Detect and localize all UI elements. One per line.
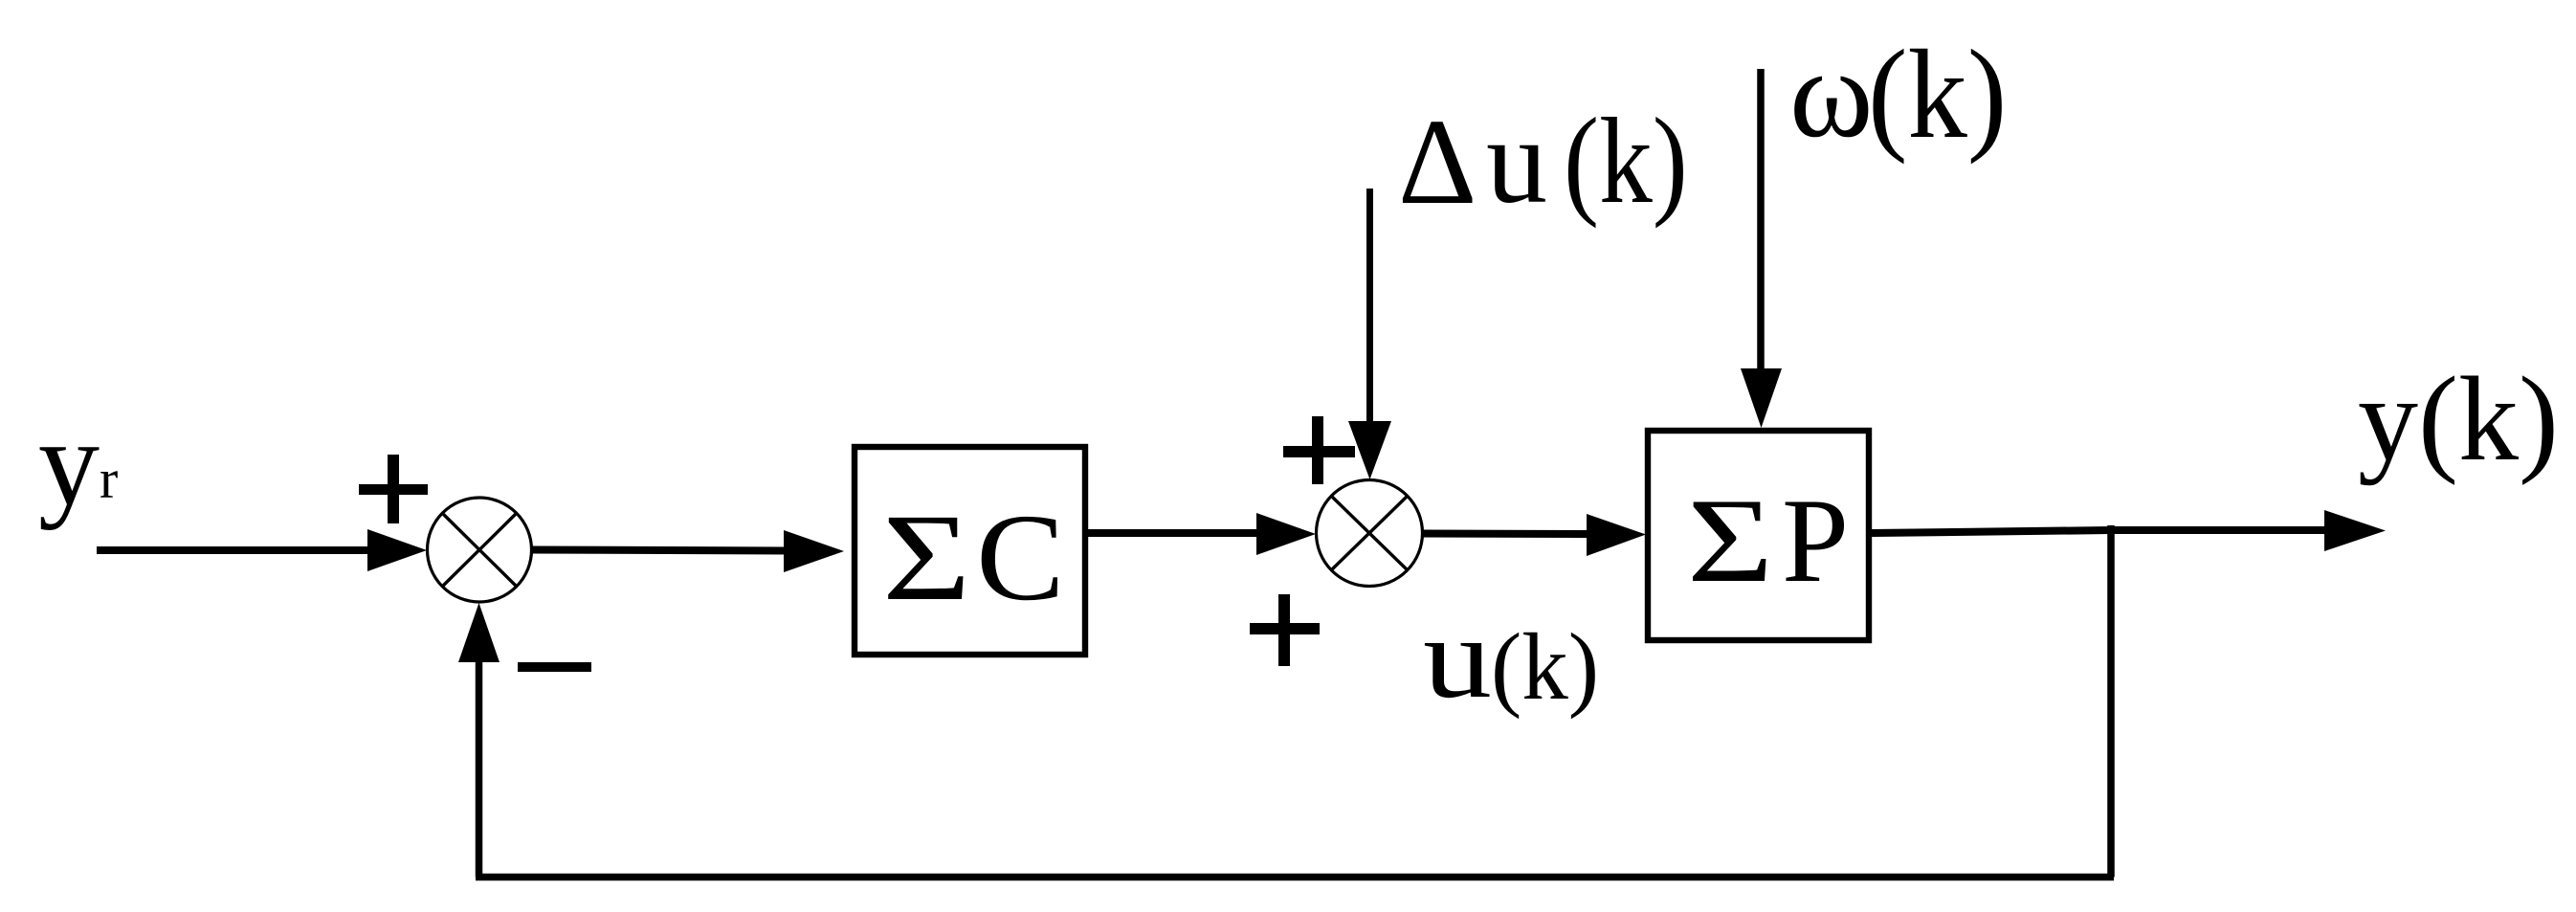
wire delta-u(k) down into S2 — [1366, 189, 1373, 431]
plus sign at S2 bottom-left — [1250, 594, 1320, 666]
summing junction S2 — [1317, 480, 1423, 587]
wire feedback bottom — [476, 874, 2114, 881]
svg-text:u: u — [1423, 592, 1492, 722]
block SigmaC (controller) — [855, 447, 1085, 655]
block SigmaP (plant) — [1648, 431, 1869, 640]
minus sign at S1 feedback input — [518, 662, 591, 672]
arrowhead output y(k) — [2324, 510, 2386, 551]
arrowhead into S1 — [367, 529, 427, 571]
svg-text:u: u — [1486, 93, 1547, 229]
svg-text:(k): (k) — [1868, 23, 2007, 165]
arrowhead into S2 — [1256, 513, 1316, 555]
wire S1 to block SigmaC — [531, 550, 789, 551]
svg-text:Δ: Δ — [1398, 94, 1477, 230]
arrowhead down into S2 — [1348, 421, 1391, 479]
wire omega(k) down into SigmaP — [1757, 69, 1765, 383]
svg-text:Σ: Σ — [1687, 474, 1773, 608]
plus sign at S1 input — [359, 455, 428, 523]
svg-text:(k): (k) — [1564, 93, 1688, 229]
wire feedback vertical left — [476, 656, 483, 878]
S2 cross — [1331, 496, 1408, 570]
summing junction S1 — [428, 498, 532, 602]
plus sign at S2 left-top — [1283, 416, 1355, 484]
wire SigmaC to summing junction S2 — [1088, 529, 1273, 537]
wire feedback vertical right (tap) — [2107, 525, 2115, 878]
feedback up-arrowhead into S1 — [458, 603, 500, 662]
S1 cross — [442, 513, 517, 587]
wire input yr to summing junction S1 — [97, 546, 402, 554]
svg-text:Σ: Σ — [882, 489, 970, 626]
svg-text:P: P — [1782, 475, 1849, 608]
arrowhead into SigmaC — [784, 530, 844, 572]
svg-text:C: C — [976, 489, 1065, 627]
wire S2 to block SigmaP — [1422, 530, 1598, 539]
arrowhead into SigmaP — [1587, 514, 1646, 556]
svg-text:ω: ω — [1789, 22, 1874, 164]
wire SigmaP output to y(k) arrow — [1872, 530, 2356, 533]
arrowhead down into SigmaP — [1741, 368, 1782, 428]
svg-text:(k): (k) — [1491, 614, 1599, 721]
svg-text:y(k): y(k) — [2358, 353, 2559, 486]
